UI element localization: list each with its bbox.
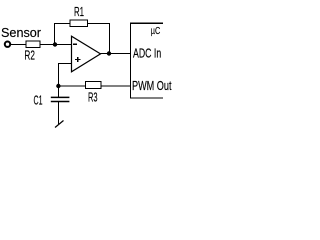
- label uC: [151, 25, 161, 37]
- resistor R2: [26, 41, 40, 47]
- svg-text:C1: C1: [34, 94, 43, 108]
- wire op-amp output to uC ADC: [101, 53, 131, 55]
- wire op-amp + input: [58, 63, 72, 65]
- terminal J1 sensor input: [5, 42, 10, 47]
- label R2: [24, 49, 35, 63]
- pin label PWM Out: [132, 79, 172, 93]
- wire R1 right to feedback corner: [87, 23, 110, 25]
- wire sensor to R2: [11, 44, 26, 46]
- svg-text:Sensor: Sensor: [1, 26, 41, 40]
- wire R3 to uC PWM: [101, 85, 130, 87]
- label C1: [34, 94, 43, 108]
- svg-text:µC: µC: [151, 25, 161, 37]
- wire C1 to ground: [57, 102, 59, 124]
- label R1: [74, 5, 84, 19]
- label R3: [88, 91, 98, 105]
- svg-text:ADC In: ADC In: [133, 47, 161, 61]
- resistor R1: [70, 20, 88, 27]
- svg-text:R3: R3: [88, 91, 98, 105]
- wire to R1 left: [54, 23, 70, 25]
- node A junction R2 / R1 / op-amp: [53, 42, 57, 46]
- svg-text:R1: R1: [74, 5, 84, 19]
- op-amp U1: [72, 36, 101, 72]
- ground: [55, 121, 64, 128]
- microcontroller uC box (open right side): [130, 23, 163, 98]
- svg-text:PWM Out: PWM Out: [132, 79, 172, 93]
- capacitor C1 top plate: [51, 96, 70, 98]
- svg-text:R2: R2: [24, 49, 35, 63]
- wire feedback down to node B: [109, 23, 111, 54]
- node C junction + input / C1 / R3: [56, 84, 60, 88]
- capacitor C1 bottom plate: [51, 101, 70, 103]
- wire + input down to node C: [57, 63, 59, 97]
- resistor R3: [85, 82, 101, 89]
- node B op-amp output junction: [107, 51, 111, 55]
- label Sensor: [1, 26, 41, 40]
- wire node A up to R1: [54, 23, 56, 45]
- wire R2 to op-amp inverting input: [41, 44, 72, 46]
- wire node C to R3: [58, 85, 85, 87]
- pin label ADC In: [133, 47, 161, 61]
